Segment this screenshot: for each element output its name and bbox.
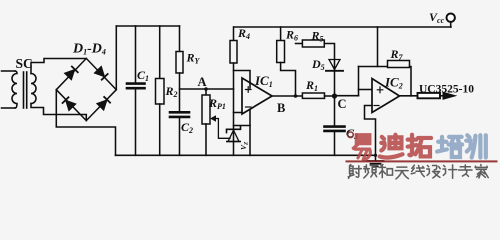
svg-text:SC: SC bbox=[16, 56, 33, 71]
svg-text:B: B bbox=[277, 101, 285, 115]
svg-text:IC2: IC2 bbox=[384, 75, 403, 91]
svg-text:R2: R2 bbox=[165, 84, 178, 99]
svg-text:C: C bbox=[338, 97, 347, 111]
svg-text:D5: D5 bbox=[311, 57, 325, 72]
svg-text:R5: R5 bbox=[311, 29, 324, 44]
svg-text:A: A bbox=[198, 75, 207, 89]
svg-text:C1: C1 bbox=[137, 68, 149, 83]
svg-text:R4: R4 bbox=[237, 26, 250, 41]
svg-text:IC1: IC1 bbox=[254, 73, 273, 89]
svg-text:RP1: RP1 bbox=[208, 96, 226, 111]
svg-text:C2: C2 bbox=[181, 120, 193, 135]
svg-text:Vcc: Vcc bbox=[429, 10, 445, 25]
svg-text:D1-D4: D1-D4 bbox=[72, 42, 106, 57]
svg-text:RY: RY bbox=[186, 51, 201, 66]
svg-text:VZ: VZ bbox=[239, 141, 250, 150]
svg-text:UC3525-10: UC3525-10 bbox=[419, 84, 474, 96]
svg-text:R6: R6 bbox=[285, 28, 298, 43]
svg-text:R1: R1 bbox=[305, 78, 318, 93]
svg-text:R7: R7 bbox=[390, 47, 404, 62]
